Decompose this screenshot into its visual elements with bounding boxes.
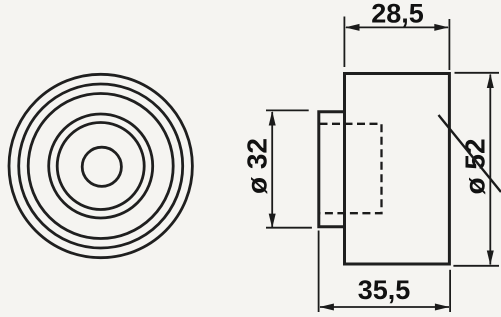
svg-text:28,5: 28,5 (371, 0, 424, 28)
svg-text:ø 32: ø 32 (242, 138, 273, 194)
svg-text:35,5: 35,5 (358, 275, 411, 305)
